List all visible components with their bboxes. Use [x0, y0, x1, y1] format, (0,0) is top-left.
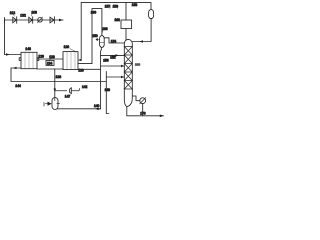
svg-text:166: 166: [102, 27, 108, 31]
controller box 134: [46, 60, 54, 65]
svg-text:160: 160: [91, 11, 97, 15]
tray X 5: [124, 81, 132, 90]
arrow feed2 into column: [121, 65, 124, 68]
arrow into left elbow: [13, 67, 17, 70]
svg-text:150: 150: [92, 34, 98, 38]
vent line from V3 inlet: [55, 89, 80, 91]
wire column bottoms line: [127, 107, 164, 116]
wire box1 to box2: [37, 58, 63, 60]
svg-text:138: 138: [56, 75, 62, 79]
wire mid riser: [106, 72, 109, 114]
arrow top line out: [59, 19, 63, 22]
wire bottoms line y69 right: [78, 68, 100, 70]
tray X 2: [124, 55, 132, 64]
wire overhead inner line: [78, 9, 102, 64]
svg-text:170: 170: [140, 112, 146, 116]
tray X 3: [124, 64, 132, 73]
box1 hatch: [25, 52, 33, 68]
reactor box1 114: [21, 52, 37, 68]
wire V2 bottom line: [98, 47, 101, 108]
V3 inlet dip tube: [54, 98, 56, 101]
condenser box 162: [121, 20, 132, 29]
tray X 1: [124, 47, 132, 56]
svg-text:157: 157: [105, 5, 111, 9]
svg-text:142: 142: [82, 85, 88, 89]
label 108 leader: [31, 14, 33, 16]
check valve 108: [29, 17, 33, 23]
wire 134 tail: [49, 59, 51, 60]
svg-text:147: 147: [65, 95, 71, 99]
wire box1 left outlet: [11, 68, 106, 82]
svg-text:156: 156: [103, 59, 109, 63]
leader 120: [70, 49, 76, 52]
svg-text:128: 128: [49, 55, 55, 59]
svg-text:162: 162: [115, 18, 121, 22]
leader tick 157: [109, 6, 112, 8]
wire bottom line to V3: [58, 108, 101, 110]
arrow into box1: [6, 53, 10, 56]
svg-text:134: 134: [47, 62, 53, 66]
check valve 112: [13, 17, 17, 23]
wire overhead outer line: [81, 3, 151, 60]
arrow feed1 into column: [116, 54, 119, 57]
tick left of V3: [43, 103, 45, 106]
vent valve symbol (bulge left, bar right): [69, 88, 71, 94]
wire feed top line: [5, 19, 64, 21]
box1 right nozzle: [37, 58, 39, 61]
leader 166: [101, 31, 104, 33]
check valve 110: [50, 17, 54, 23]
leader 112: [13, 14, 14, 16]
box2 hatch: [67, 52, 75, 70]
knockout drum V2 capsule: [100, 36, 105, 48]
pump P1 slash: [38, 17, 43, 22]
svg-text:154: 154: [111, 40, 117, 44]
svg-text:152: 152: [110, 55, 116, 59]
pump P1 circle: [38, 18, 43, 23]
svg-text:158: 158: [132, 3, 138, 7]
svg-text:159: 159: [113, 5, 119, 9]
reboiler pump circle: [140, 98, 146, 104]
wire feed3 branch: [106, 76, 124, 78]
box1 left nozzle: [19, 58, 21, 61]
column C1 shell: [124, 39, 132, 89]
inlet arrow triangle left of V3: [48, 102, 52, 106]
wire pump down to bottoms: [142, 104, 144, 116]
wire V2 right stub to column top feed: [104, 38, 124, 43]
svg-text:168: 168: [135, 62, 140, 66]
wire bottoms line y69 left: [37, 68, 63, 70]
arrow down into V3: [54, 89, 57, 93]
svg-text:108: 108: [31, 10, 37, 14]
tray X 4: [124, 72, 132, 81]
wire drop to vessel V3: [54, 69, 56, 98]
V2 level mark: [100, 42, 104, 44]
svg-text:148: 148: [105, 88, 111, 92]
wire feed1 from V2 bottom: [101, 54, 125, 56]
column bottom dome: [124, 89, 132, 107]
arrow reflux into column: [140, 40, 144, 43]
arrow into box2 right at y60: [78, 59, 82, 62]
svg-text:144: 144: [15, 84, 21, 88]
wire reboiler stub: [132, 96, 140, 101]
reboiler pump slash: [140, 98, 146, 104]
wire feed start tick: [4, 18, 6, 24]
wire left downcomer to box1: [5, 20, 22, 55]
leader tick 159: [116, 6, 119, 8]
V2 left arrow: [96, 38, 100, 40]
V3 inlet arrow tail: [46, 103, 48, 105]
vessel V3 capsule: [52, 98, 58, 110]
svg-text:126: 126: [38, 55, 44, 59]
wire drum bottom to column top: [132, 19, 151, 42]
arrow feed3 into column: [121, 76, 124, 79]
svg-text:140: 140: [94, 104, 100, 108]
arrow bottoms out: [160, 115, 164, 118]
reactor box2 120: [63, 52, 78, 70]
svg-text:112: 112: [10, 11, 15, 15]
condenser stub from top line: [125, 3, 127, 20]
wire feed2 from V2 vertical: [101, 65, 125, 67]
column tray lines: [124, 47, 132, 90]
reflux drum 158 capsule: [149, 10, 154, 19]
V3 right nub: [57, 103, 59, 105]
svg-text:120: 120: [64, 45, 70, 49]
wire condenser to column top: [125, 29, 127, 40]
svg-text:132: 132: [20, 13, 26, 17]
svg-text:146: 146: [25, 47, 31, 51]
arrow bottom line left: [95, 108, 99, 111]
